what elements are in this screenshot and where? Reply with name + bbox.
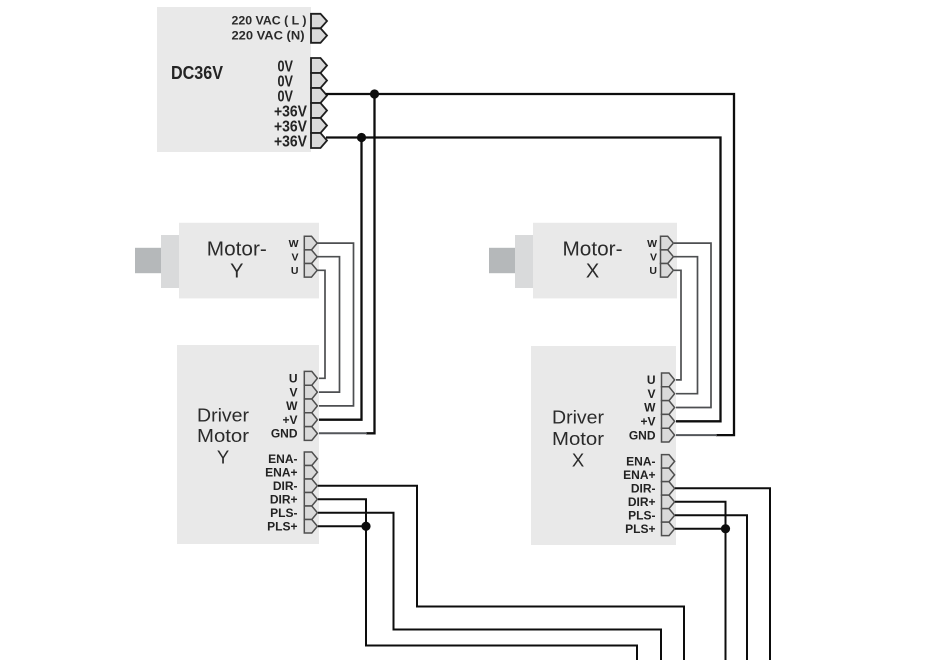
wire Driver Y DIR-: [318, 486, 684, 660]
motor X pin U: [661, 264, 674, 278]
junction 0V node: [370, 89, 379, 98]
motor Y pin W: [304, 236, 317, 250]
wire Driver Y DIR+: [318, 499, 637, 660]
motor X shaft: [489, 248, 515, 273]
svg-text:Driver: Driver: [552, 406, 604, 427]
driver Y pin DIR-: [304, 479, 317, 493]
driver Y pin GND: [304, 427, 317, 441]
driver Y pin W: [304, 399, 317, 413]
wire Motor Y U to Driver Y U: [317, 270, 326, 378]
driver Y pin DIR+: [304, 493, 317, 507]
pin 220 VAC L: [311, 14, 327, 28]
svg-text:ENA+: ENA+: [623, 468, 655, 482]
power supply DC36V: [157, 7, 311, 152]
wire Motor X W to Driver X W: [674, 243, 711, 407]
svg-text:+V: +V: [640, 415, 655, 429]
driver X pin W: [662, 401, 675, 415]
driver X pin DIR+: [662, 495, 675, 509]
svg-text:W: W: [286, 399, 298, 413]
driver X pin V: [662, 387, 675, 401]
svg-text:Driver: Driver: [197, 404, 249, 425]
pin 0V #1: [311, 58, 327, 73]
svg-text:Y: Y: [217, 446, 229, 467]
driver Y pin ENA+: [304, 466, 317, 480]
driver X pin ENA+: [662, 468, 675, 482]
wire 0V bus: supply pin3 to Driver X GND: [326, 94, 734, 435]
junction Driver Y PLS+/DIR+: [361, 522, 370, 531]
pin 0V #3: [311, 88, 327, 103]
motor Y pin V: [304, 250, 317, 264]
svg-text:Motor: Motor: [197, 425, 249, 446]
pin 0V #2: [311, 73, 327, 88]
motor X pin W: [661, 236, 674, 250]
junction +36V node: [357, 133, 366, 142]
junction Driver X PLS+/DIR+: [721, 524, 730, 533]
pin +36V #6: [311, 133, 327, 148]
driver X pin GND: [662, 428, 675, 442]
svg-text:X: X: [586, 261, 599, 283]
svg-text:DC36V: DC36V: [171, 63, 223, 83]
svg-text:220 VAC (N): 220 VAC (N): [232, 28, 305, 42]
svg-text:W: W: [647, 238, 657, 250]
svg-text:V: V: [647, 387, 655, 401]
svg-text:V: V: [291, 252, 298, 264]
driver motor X body: [531, 346, 676, 545]
driver Y pin +V: [304, 413, 317, 427]
svg-text:220 VAC ( L ): 220 VAC ( L ): [232, 14, 307, 28]
svg-text:+36V: +36V: [274, 133, 307, 150]
svg-text:U: U: [647, 373, 656, 387]
pin 220 VAC N: [311, 28, 327, 43]
driver X pin DIR-: [662, 482, 675, 496]
wire Driver X GND stub: [675, 434, 717, 436]
svg-text:Motor-: Motor-: [207, 239, 267, 261]
wire +36V bus: supply pin6 to Driver X +V: [326, 138, 721, 422]
wire Motor Y W to Driver Y W: [317, 243, 354, 406]
wire +36V branch to Driver Y +V: [318, 138, 362, 420]
svg-text:Motor: Motor: [552, 428, 604, 449]
svg-text:PLS+: PLS+: [625, 522, 655, 536]
svg-text:DIR-: DIR-: [631, 482, 656, 496]
svg-text:U: U: [649, 265, 657, 277]
svg-text:DIR+: DIR+: [270, 492, 298, 506]
svg-text:Motor-: Motor-: [563, 239, 623, 261]
svg-text:ENA-: ENA-: [626, 455, 655, 469]
motor X body: [533, 223, 677, 299]
wire Driver Y PLS-: [318, 513, 661, 660]
svg-text:DIR-: DIR-: [273, 479, 298, 493]
motor Y body: [179, 223, 319, 299]
pin +36V #5: [311, 118, 327, 133]
wire Driver Y GND stub: [318, 432, 367, 434]
driver X pin PLS+: [662, 522, 675, 536]
svg-text:W: W: [644, 401, 656, 415]
svg-text:GND: GND: [629, 428, 656, 442]
driver X pin +V: [662, 414, 675, 428]
svg-text:U: U: [289, 372, 298, 386]
wire Driver X DIR-: [675, 488, 770, 660]
svg-text:DIR+: DIR+: [628, 495, 656, 509]
svg-text:ENA-: ENA-: [268, 452, 297, 466]
wire Driver X DIR+: [675, 502, 726, 660]
wire Motor X U to Driver X U: [674, 270, 681, 380]
driver Y pin ENA-: [304, 452, 317, 466]
motor X pin V: [661, 250, 674, 264]
driver Y pin U: [304, 371, 317, 385]
driver X pin U: [662, 373, 675, 387]
driver X pin ENA-: [662, 455, 675, 469]
svg-text:W: W: [289, 238, 299, 250]
svg-text:U: U: [291, 265, 299, 277]
pin +36V #4: [311, 103, 327, 118]
wire Driver X PLS+: [675, 528, 726, 530]
svg-text:X: X: [572, 449, 584, 470]
wire 0V branch to Driver Y GND: [366, 94, 375, 433]
driver Y pin PLS+: [304, 520, 317, 534]
driver Y pin V: [304, 385, 317, 399]
svg-text:Y: Y: [230, 261, 243, 283]
driver motor Y body: [177, 345, 319, 544]
wire Motor Y V to Driver Y V: [317, 257, 340, 392]
motor Y flange: [161, 235, 179, 288]
wire Driver X PLS-: [675, 515, 747, 660]
motor Y pin U: [304, 264, 317, 278]
svg-text:GND: GND: [271, 427, 298, 441]
driver X pin PLS-: [662, 509, 675, 522]
svg-text:PLS-: PLS-: [270, 506, 297, 520]
svg-text:PLS-: PLS-: [628, 509, 655, 523]
motor Y shaft: [135, 248, 161, 273]
svg-text:V: V: [289, 385, 297, 399]
svg-text:V: V: [650, 252, 657, 264]
svg-text:+V: +V: [282, 413, 297, 427]
driver Y pin PLS-: [304, 506, 317, 520]
wire Driver Y PLS+: [318, 525, 366, 527]
wire Motor X V to Driver X V: [674, 257, 698, 394]
motor X flange: [515, 235, 533, 288]
svg-text:PLS+: PLS+: [267, 519, 297, 533]
svg-text:ENA+: ENA+: [265, 465, 297, 479]
